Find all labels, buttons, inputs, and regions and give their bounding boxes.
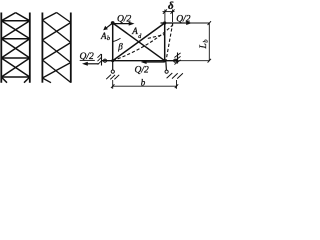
column 2 top cut diagonals [42,13,70,23]
force arrow Q/2 at node C [144,61,165,63]
arrowhead Q/2 col2 [82,62,88,66]
column 2 diagonal R42-L60 [42,43,70,61]
column 2 bottom cut stub [42,78,51,83]
truss top chord stub at B [161,22,173,24]
Lb dimension line [208,23,210,61]
svg-text:δ: δ [168,0,174,12]
support stem under C [165,61,168,70]
column 1 X brace panel 2 [1,39,30,58]
truss bottom chord [102,60,178,62]
column 1 X brace panel 1 [1,21,30,39]
right wall hatches [174,53,180,65]
support stem under D [112,61,114,70]
node dot C [163,59,166,62]
column 1 X brace panel 3 [1,58,30,77]
lattice column 1 right chord [29,13,31,83]
arrowhead Ab [103,26,108,30]
svg-text:Q/2: Q/2 [135,65,150,75]
truss diagonal A-C [113,23,165,61]
column 2 diagonal R62-L78 [42,63,70,79]
support hinge circle under C [165,70,168,73]
right hinge circle [174,59,177,62]
support hatches under D [106,75,119,80]
svg-text:L: L [199,43,209,49]
svg-text:Q/2: Q/2 [176,15,191,25]
b dimension line [113,85,177,87]
force arrow Q/2 at node A [113,23,132,25]
truss diagonal B-D [113,23,165,61]
column 2 diagonal L20-R42 [42,20,70,43]
svg-text:Q/2: Q/2 [80,52,95,62]
column 2 diagonal L60-R82 [42,60,70,83]
dashed second diagonal row [148,35,165,39]
truss left column A-D [112,23,114,61]
arrowhead Q/2 C [141,60,147,64]
left hinge circle [103,59,106,62]
column 2 diagonal L40-R62 [42,40,70,63]
force arrow Q/2 at column 2 [86,63,99,65]
angle beta arc [113,38,121,41]
column 1 bottom cut stubs [1,77,30,83]
node dot B [163,21,166,24]
label Lb rotated [199,39,210,50]
svg-text:b: b [107,36,110,42]
column 2 diagonal R22-L40 [42,23,70,41]
node dot A [111,21,115,25]
arrowhead Q/2 B' [186,21,192,25]
bottom dimension extension line to Lb [178,60,210,62]
column 1 strut y77 [1,76,30,78]
top extension line to Lb [173,22,210,24]
svg-text:β: β [117,41,123,51]
lattice column 1 left chord [0,13,2,83]
truss right column B-C [164,23,166,61]
underline of Q/2 label left [80,59,95,61]
reaction arrow Ab at node A [106,23,113,28]
arrowhead Q/2 A [129,22,135,26]
left wall hatches [98,54,102,65]
column 1 strut y39 [1,38,30,40]
lattice column 2 right chord [70,13,72,83]
column 1 strut y58 [1,57,30,59]
force arrow Q/2 at node B' [173,22,189,24]
dashed displaced column B'-C [166,23,173,60]
support hatches under C [167,73,183,79]
lattice column 2 left chord [41,13,43,83]
column 1 top half-X brace [1,13,30,21]
svg-text:b: b [141,78,146,88]
svg-text:Q/2: Q/2 [117,14,132,24]
svg-text:A: A [100,31,107,41]
dashed displaced diagonal D-B' (sagging curve) [113,24,174,61]
delta dimension ticks and line [165,10,173,23]
left wall link tick [101,54,103,66]
column 1 strut y21 [1,20,30,22]
right wall link tick [177,53,179,64]
node dot D [111,59,114,62]
svg-text:A: A [131,26,138,36]
support hinge circle under D [111,70,114,73]
b dimension extension ticks [113,80,177,89]
